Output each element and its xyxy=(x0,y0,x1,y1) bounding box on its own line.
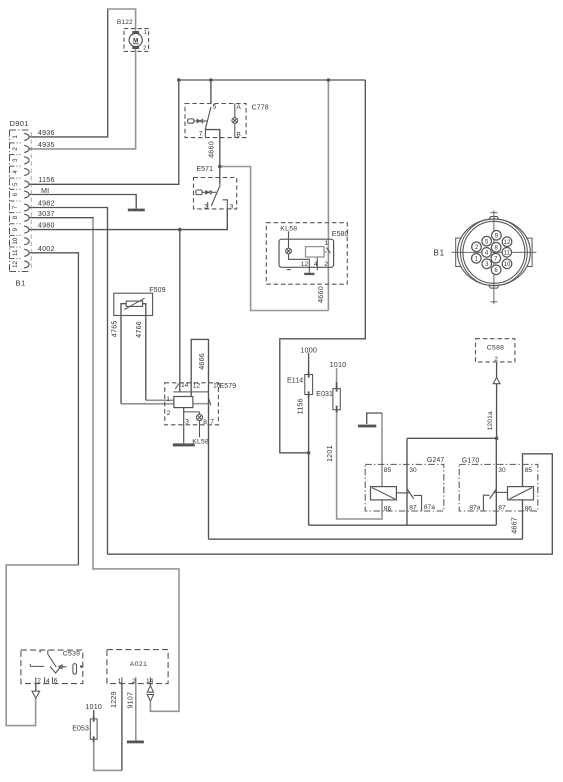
svg-text:2: 2 xyxy=(12,147,19,151)
wire 1201a C588 pin2 down xyxy=(496,362,498,438)
E579 lamp KL58 xyxy=(196,412,202,438)
node 1156-E114 xyxy=(307,451,311,455)
sensor F509 xyxy=(114,287,166,316)
B1 pin 9 xyxy=(492,231,502,241)
svg-text:3: 3 xyxy=(185,418,189,425)
contact D901 pin3 xyxy=(24,157,29,164)
ground for G247 pin85 xyxy=(358,425,376,428)
C539 top tick xyxy=(47,650,49,654)
svg-text:C539: C539 xyxy=(63,651,80,658)
svg-text:11: 11 xyxy=(504,250,511,256)
wire 1010 above fuse E031 xyxy=(336,368,338,389)
svg-text:1: 1 xyxy=(118,678,122,685)
E580 minus dash xyxy=(287,269,291,271)
svg-text:86: 86 xyxy=(384,505,392,512)
svg-text:B1: B1 xyxy=(434,249,445,258)
wire 4765 F509 left lead down xyxy=(121,304,126,404)
svg-text:B122: B122 xyxy=(117,19,133,26)
E571 pin3 bracket xyxy=(223,200,228,209)
B1 end ticks xyxy=(490,213,497,302)
svg-text:4660: 4660 xyxy=(207,141,216,158)
svg-text:5: 5 xyxy=(12,182,19,186)
svg-text:6: 6 xyxy=(54,678,58,685)
wire G247 pin30-87 vertical xyxy=(406,438,408,525)
svg-text:4660: 4660 xyxy=(316,286,325,303)
wire A021 pin14 stub xyxy=(149,684,151,686)
svg-text:E031: E031 xyxy=(316,391,333,398)
wire 3037 D901 pin8 breakout xyxy=(32,217,94,219)
svg-text:2: 2 xyxy=(37,678,41,685)
svg-text:1156: 1156 xyxy=(38,175,54,184)
svg-text:4766: 4766 xyxy=(134,321,143,338)
fuse E031 xyxy=(316,382,340,412)
wire 4002 D901 pin11 down xyxy=(32,253,79,565)
control unit E579 xyxy=(165,382,237,446)
G170 87a contact xyxy=(483,495,489,511)
E571 pin2 tick xyxy=(207,202,209,209)
B1 shell xyxy=(458,219,531,285)
svg-text:12: 12 xyxy=(12,260,19,267)
B1 pin 12 xyxy=(502,237,512,247)
svg-text:6: 6 xyxy=(12,192,19,196)
B1 crosshair xyxy=(451,210,536,304)
svg-text:14: 14 xyxy=(181,382,189,389)
B1 pin 10 xyxy=(502,259,512,269)
C539 right contact xyxy=(59,665,67,669)
B1 pin 4 xyxy=(482,248,492,258)
C539 cylinder xyxy=(73,664,77,675)
C588 arrow xyxy=(493,378,500,384)
svg-text:4980: 4980 xyxy=(38,221,55,230)
svg-text:2: 2 xyxy=(324,261,328,268)
wire 4002 lower part to C539 pin2 xyxy=(6,565,78,726)
svg-text:30: 30 xyxy=(498,467,506,474)
svg-text:10: 10 xyxy=(12,237,19,244)
svg-text:9: 9 xyxy=(12,227,19,231)
wire E053 top stem xyxy=(93,710,95,719)
svg-text:2: 2 xyxy=(204,204,208,211)
ground under MI xyxy=(128,209,145,212)
connector D901 xyxy=(10,130,32,272)
svg-text:2: 2 xyxy=(167,410,171,417)
svg-text:KL58: KL58 xyxy=(280,226,297,233)
contact D901 pin1 xyxy=(24,133,29,140)
C539 left contact xyxy=(30,664,44,667)
svg-text:87: 87 xyxy=(498,505,506,512)
G170 coil diagonal xyxy=(510,488,533,499)
wire 4667 G170 pin86 to bus y539 xyxy=(522,500,524,539)
G247 87a contact xyxy=(414,495,422,511)
svg-text:C588: C588 xyxy=(487,345,504,352)
B1 pin 1 xyxy=(472,253,482,263)
svg-text:4936: 4936 xyxy=(38,128,55,137)
connector B1 face view xyxy=(451,210,536,304)
control unit A021 xyxy=(107,650,168,702)
F509 diagonal xyxy=(124,298,144,310)
B1 pin 7 xyxy=(491,253,501,263)
svg-text:12: 12 xyxy=(301,261,309,268)
E580 pin4 stub xyxy=(316,258,318,271)
svg-text:85: 85 xyxy=(384,467,392,474)
contact D901 pin11 xyxy=(24,249,29,256)
svg-text:14: 14 xyxy=(146,678,154,685)
wire bus y80 xyxy=(179,79,365,81)
svg-text:4002: 4002 xyxy=(38,244,55,253)
svg-text:3: 3 xyxy=(230,204,234,211)
G170 link xyxy=(494,491,508,493)
wire G170 pin30-87 vertical xyxy=(495,438,497,525)
node 4980 xyxy=(178,228,182,232)
G247 link xyxy=(396,492,409,494)
svg-text:2: 2 xyxy=(132,678,136,685)
wire E579 module to lamp KL58 xyxy=(184,411,200,413)
wire 9107 A021 pin2 to ground xyxy=(135,684,137,741)
E571 switch blade xyxy=(211,185,220,206)
svg-text:12: 12 xyxy=(193,383,201,390)
contact D901 pin7 xyxy=(24,204,29,211)
wire 4980 D901 pin9 to E571 pin3 xyxy=(32,209,228,230)
contact D901 pin2 xyxy=(24,145,29,152)
wire 4980 branch to E579 pin14 xyxy=(179,230,181,393)
wire 4766 F509 right lead down xyxy=(143,304,146,401)
svg-text:B: B xyxy=(236,131,241,138)
wire bus y525 to relay contacts 87 xyxy=(309,524,497,526)
svg-text:E580: E580 xyxy=(332,231,349,238)
B1 pin 3 xyxy=(482,259,492,269)
B1 pin 8 xyxy=(491,243,501,253)
svg-text:MI: MI xyxy=(41,186,49,195)
E580 ground bar xyxy=(304,273,314,275)
svg-text:A021: A021 xyxy=(130,661,147,668)
contact D901 pin12 xyxy=(24,261,29,268)
wire 4660 C778 pin7 to E571 pin1 xyxy=(205,130,220,185)
wire bus y539 E579 pin7 to 4667 xyxy=(209,538,523,540)
wire 1156 below fuse E114 xyxy=(308,395,310,526)
svg-text:7: 7 xyxy=(210,418,214,425)
wire bus y554 to relay G170 pin85 xyxy=(108,454,553,554)
wire 4766 into E579 pin1 xyxy=(146,399,174,401)
svg-text:E571: E571 xyxy=(196,166,213,173)
svg-text:4: 4 xyxy=(12,170,19,174)
G170 blade xyxy=(490,489,497,499)
node bus-1156 xyxy=(177,78,181,82)
svg-text:4982: 4982 xyxy=(38,198,55,207)
E580 KL58 stem xyxy=(288,231,290,248)
svg-text:2: 2 xyxy=(494,356,498,363)
wire node E571 pin1 to E580 pin2 link xyxy=(220,167,329,311)
C778 actuator xyxy=(188,119,208,123)
A021 pin14 arrow up xyxy=(147,686,153,693)
C778 lamp xyxy=(232,104,238,138)
svg-text:1156: 1156 xyxy=(295,398,304,414)
E580 lamp xyxy=(286,248,292,254)
wire 4935 D901 pin2 to motor B122 pin2 xyxy=(32,49,136,149)
C539 V contact xyxy=(50,667,61,674)
wire E579 module to switch xyxy=(193,403,208,405)
contact D901 pin4 xyxy=(24,168,29,175)
svg-text:87: 87 xyxy=(409,505,417,512)
motor B122 xyxy=(117,19,149,52)
wire 1201 fuse E031 to relay G247 pin86 xyxy=(337,410,382,519)
C539 dot xyxy=(80,665,83,668)
ground under 9107 xyxy=(127,741,144,744)
wire 1229 A021 pin1 down to E053 xyxy=(121,684,123,771)
svg-text:G170: G170 xyxy=(462,458,480,465)
wire MI D901 pin6 to ground xyxy=(32,195,137,209)
svg-text:F509: F509 xyxy=(149,287,165,294)
C539 pin2 arrow xyxy=(32,691,40,698)
E580 inner module xyxy=(306,247,325,257)
A021 pin14 arrow down xyxy=(147,695,153,702)
switch unit C778 xyxy=(185,104,269,139)
svg-text:D901: D901 xyxy=(10,119,29,128)
E579 slash mark xyxy=(175,383,179,389)
wire 4660 E580 pin2 vertical xyxy=(327,80,329,311)
svg-text:1: 1 xyxy=(166,396,170,403)
svg-text:1010: 1010 xyxy=(85,702,102,711)
svg-text:E114: E114 xyxy=(287,378,303,385)
svg-text:8: 8 xyxy=(12,215,19,219)
contact D901 pin9 xyxy=(24,226,29,233)
B1 key bottom xyxy=(489,285,500,289)
svg-text:E579: E579 xyxy=(220,383,237,390)
svg-text:2: 2 xyxy=(143,46,146,52)
node bus-C778 xyxy=(209,78,213,82)
svg-text:KL58: KL58 xyxy=(192,438,209,445)
svg-text:G247: G247 xyxy=(427,457,445,464)
C539 pin ticks xyxy=(36,677,53,683)
contact D901 pin10 xyxy=(24,238,29,245)
svg-text:E053: E053 xyxy=(72,726,89,733)
svg-text:1000: 1000 xyxy=(300,345,317,354)
wire G247 pin85 coil feed xyxy=(381,413,383,487)
relay G170 xyxy=(459,458,538,513)
E580 lamp to ground xyxy=(289,254,310,273)
svg-text:86: 86 xyxy=(525,505,533,512)
B1 ring outer xyxy=(461,219,528,286)
wire C539 pin2 stem xyxy=(35,684,37,692)
fuse E114 xyxy=(287,372,313,397)
svg-text:4666: 4666 xyxy=(197,353,206,370)
svg-text:85: 85 xyxy=(525,467,533,474)
E579 ground bar xyxy=(173,443,195,446)
wire 4936 D901 pin1 up xyxy=(32,10,108,137)
svg-text:A: A xyxy=(236,104,241,111)
fuse E053 xyxy=(72,716,97,743)
C778 switch blade xyxy=(205,107,211,130)
wire 3037 long gray run to A021 pin14 xyxy=(93,218,179,712)
svg-text:1201a: 1201a xyxy=(487,411,494,430)
svg-text:7: 7 xyxy=(12,205,19,209)
wire 4666 E579 pin12 loop to pin10 and pin7 down xyxy=(191,339,208,539)
wire 4982 D901 pin7 down xyxy=(32,208,108,555)
switch E571 xyxy=(194,166,237,211)
svg-text:8: 8 xyxy=(203,419,207,426)
B1 pin 5 xyxy=(482,236,492,246)
contact D901 pin5 xyxy=(24,181,29,188)
svg-text:9107: 9107 xyxy=(126,692,135,709)
B1 ring xyxy=(463,221,525,283)
svg-text:12: 12 xyxy=(504,240,511,246)
svg-text:87a: 87a xyxy=(424,504,435,511)
WIRES_GRAY xyxy=(6,9,382,770)
svg-text:B1: B1 xyxy=(16,279,27,288)
wire 1201a branch to G247 pin30 xyxy=(407,437,497,439)
control unit E580 xyxy=(266,223,348,285)
svg-text:1229: 1229 xyxy=(109,691,118,708)
svg-text:1201: 1201 xyxy=(325,445,334,462)
svg-text:11: 11 xyxy=(12,249,19,256)
contact D901 pin8 xyxy=(24,214,29,221)
svg-text:1: 1 xyxy=(325,240,329,247)
E579 switch blade xyxy=(208,398,211,406)
svg-text:30: 30 xyxy=(409,467,417,474)
wire G247 85 ground stem xyxy=(367,413,382,424)
wire 1000 above fuse E114 xyxy=(308,353,310,375)
svg-text:4935: 4935 xyxy=(38,140,55,149)
E571 actuator xyxy=(196,190,216,195)
C539 blade xyxy=(48,654,56,667)
svg-text:87a: 87a xyxy=(469,505,480,512)
wire E053 bottom to 1229 xyxy=(94,739,122,770)
wire C778 pin5 feed xyxy=(210,80,212,104)
svg-text:4: 4 xyxy=(46,678,50,685)
svg-text:3037: 3037 xyxy=(38,209,55,218)
wire B122 top link xyxy=(107,9,136,31)
C539 dot mark xyxy=(39,651,41,653)
wire 4765 into E579 pin2 xyxy=(121,403,174,405)
svg-text:C778: C778 xyxy=(252,105,269,112)
C778 pin7 tick xyxy=(204,130,206,138)
svg-text:1: 1 xyxy=(12,135,19,139)
E579 pin3 stem xyxy=(183,408,185,444)
G247 coil diagonal xyxy=(372,488,395,499)
svg-text:3: 3 xyxy=(12,158,19,162)
G247 blade xyxy=(407,489,414,499)
svg-text:7: 7 xyxy=(199,131,203,138)
svg-text:1: 1 xyxy=(144,30,147,36)
A021 pin ticks xyxy=(122,677,150,683)
wire 1156 D901 pin5 up to bus xyxy=(32,80,179,184)
B1 key top xyxy=(489,217,500,221)
svg-text:4667: 4667 xyxy=(510,517,519,534)
svg-text:4765: 4765 xyxy=(109,320,118,337)
svg-text:4: 4 xyxy=(314,261,318,268)
switch C539 xyxy=(21,650,83,698)
node E571 pin1 xyxy=(218,165,222,169)
contact D901 pin6 xyxy=(24,191,29,198)
B1 pin 6 xyxy=(491,265,501,275)
E580 pin1 blade xyxy=(325,248,331,254)
node bus-4660 xyxy=(327,78,331,82)
B1 side tabs xyxy=(456,238,532,266)
wire E579 internal rail xyxy=(173,391,208,393)
svg-text:10: 10 xyxy=(504,262,511,268)
wire net 1156 right loop from bus to fuse E114 xyxy=(280,80,366,453)
relay G247 xyxy=(365,457,444,512)
connector C588 xyxy=(476,339,515,384)
node 1201a xyxy=(495,437,499,441)
B1 pin 11 xyxy=(502,248,512,258)
svg-text:1010: 1010 xyxy=(330,360,347,369)
svg-text:5: 5 xyxy=(213,104,217,111)
B1 pin 2 xyxy=(472,242,482,252)
